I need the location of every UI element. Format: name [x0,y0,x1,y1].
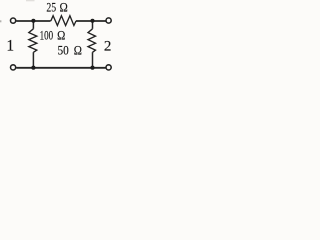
resistor R2 100 ohm (left shunt, vertical zigzag) [29,29,37,53]
edge smudge artifact at top border [26,0,35,1]
terminal port2 top [106,18,111,23]
svg-text:Ω: Ω [74,44,82,58]
node junction dot bottom-right [90,66,94,70]
wire right shunt bottom stub [92,52,94,68]
terminal port2 bottom [106,65,111,70]
svg-text:1: 1 [6,37,14,54]
svg-text:25: 25 [46,1,56,15]
wire right shunt top stub [92,21,94,29]
resistor R1 25 ohm (series, horizontal zigzag) [51,16,76,26]
svg-text:50: 50 [58,44,69,58]
background [0,0,117,78]
svg-text:Ω: Ω [57,29,65,43]
svg-text:2: 2 [104,39,112,55]
resistor R3 50 ohm (right shunt, vertical zigzag) [88,29,96,53]
wire top-right segment [76,20,106,22]
terminal port1 bottom [11,65,16,70]
edge smudge artifact at left border [0,20,1,22]
terminal port1 top [11,18,16,23]
wire top-left segment [16,20,50,22]
wire bottom [16,67,105,69]
svg-text:100: 100 [40,29,54,43]
wire left shunt bottom stub [32,52,34,68]
wire left shunt top stub [32,21,34,29]
node junction dot top-right [90,19,94,23]
node junction dot top-left [31,19,35,23]
node junction dot bottom-left [31,66,35,70]
svg-text:Ω: Ω [60,1,68,15]
